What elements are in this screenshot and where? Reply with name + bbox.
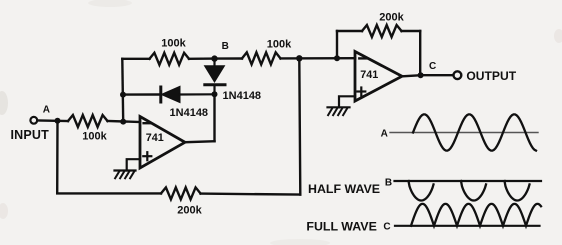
wire U2 feedback up [336,31,338,58]
svg-text:C: C [429,61,436,72]
resistor R1 100k [68,115,108,127]
svg-text:HALF WAVE: HALF WAVE [308,182,380,196]
svg-text:A: A [43,105,50,116]
wire node A down to bottom rail [56,121,59,194]
svg-text:200k: 200k [379,12,404,24]
resistor R4 200k feedback [362,25,402,37]
U1 plus sign [143,152,151,160]
wire feedback down to node C [419,31,421,75]
resistor R3 100k [242,52,281,64]
junction dot U1 inv input [120,119,126,125]
waveform C label [383,221,390,232]
label D2 1N4148 [223,90,262,102]
wire R4 to output node [402,30,421,32]
wire D2 cathode down to U1 output [213,94,215,141]
wire input to R1 [37,119,68,122]
wire bottom rail left segment [57,192,161,194]
label INPUT [11,128,50,142]
svg-text:B: B [222,41,229,52]
input terminal (open circle) [30,117,37,124]
label R3 100k [267,39,292,51]
ground symbol U2 [328,107,350,115]
U2 plus sign [357,88,365,96]
junction dot bottom-rail node [296,55,302,61]
node B label [222,41,229,52]
ground symbol U1 [115,171,136,179]
op-amp U2 741 triangle [355,52,402,102]
waveform B label [385,178,392,189]
waveform A baseline [390,132,538,134]
U2 minus sign [359,57,366,59]
svg-text:100k: 100k [267,39,292,51]
svg-text:INPUT: INPUT [11,128,50,142]
output terminal (open circle) [454,71,462,79]
svg-text:C: C [383,221,390,232]
diode D2 1N4148 vertical [205,59,226,95]
junction dot node A [55,118,61,124]
node C label [429,61,436,72]
wire U2 plus input to ground [339,96,355,107]
waveform C full-wave humps [411,204,541,226]
junction dot diode rail right [212,91,218,97]
wire diode rail [123,93,161,95]
label R4 200k [379,12,404,24]
svg-text:1N4148: 1N4148 [170,107,209,119]
wire node B to R3 [215,57,243,59]
junction dot node C [418,72,424,78]
label D1 1N4148 [170,107,209,119]
svg-text:A: A [381,129,388,140]
label U1 741 [146,132,164,144]
label HALF WAVE [308,182,380,196]
label OUTPUT [466,69,516,83]
wire feedback top to R4 [337,30,362,32]
junction dot node B [211,55,217,61]
waveform B hump 3 [505,181,530,200]
waveform C baseline [395,225,540,227]
wire bottom rail right segment [201,194,301,195]
waveform B hump 2 [461,181,486,200]
wire R1 to U1 inverting input [108,121,141,122]
label U2 741 [360,69,378,81]
wire feedback top left segment [122,58,149,60]
waveform B baseline [395,180,542,182]
wire U1 output [185,141,215,142]
label R5 200k [177,205,202,217]
junction dot diode rail left [120,92,126,98]
wire up to U2 input node [299,58,300,194]
svg-text:741: 741 [146,132,164,144]
junction dot feedback node [334,55,340,61]
label R2 100k [161,38,186,50]
svg-text:100k: 100k [82,131,107,143]
U1 minus sign [144,122,151,124]
label FULL WAVE [306,220,376,234]
wire R2 to node B [189,57,215,60]
wire U2 output to node C [402,75,420,76]
svg-text:OUTPUT: OUTPUT [466,69,516,83]
svg-text:1N4148: 1N4148 [223,90,262,102]
svg-text:100k: 100k [161,38,186,50]
resistor R2 100k feedback [150,53,190,65]
wire U1 plus input to ground [127,159,140,170]
waveform B hump 1 [409,181,434,200]
waveform A sine [413,114,536,150]
waveform A label [381,129,388,140]
svg-text:B: B [385,178,392,189]
svg-text:200k: 200k [177,205,202,217]
diode D1 1N4148 horizontal [161,86,215,102]
wire U1 inv node up to feedback [121,59,124,122]
node A label [43,105,50,116]
wire node C to output terminal [421,74,453,76]
op-amp U1 741 triangle [140,117,185,169]
resistor R5 200k [161,187,201,199]
svg-text:FULL WAVE: FULL WAVE [306,220,376,234]
svg-text:741: 741 [360,69,378,81]
label R1 100k [82,131,107,143]
wire R3 to U2 inverting input [281,57,356,60]
